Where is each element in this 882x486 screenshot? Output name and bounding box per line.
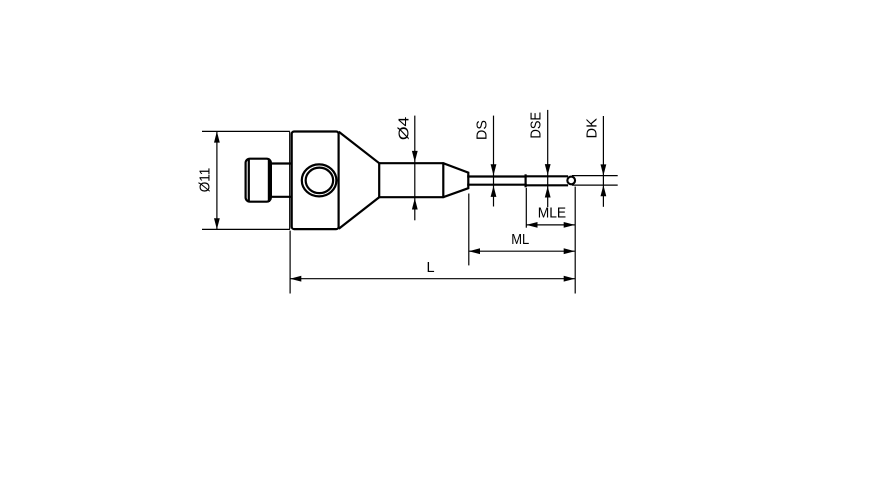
stem DS top edge xyxy=(468,175,525,177)
dimension L left arrow xyxy=(290,276,301,282)
stem DSE top edge xyxy=(526,175,567,177)
cone and taper outline xyxy=(339,132,469,229)
dimension MLE left arrow xyxy=(526,222,537,228)
cylinder/taper junction edge xyxy=(442,162,444,198)
dimension Ø11 top arrow xyxy=(214,131,220,142)
dimension Ø11 top extension line xyxy=(202,130,290,132)
dimension DK line xyxy=(602,116,604,207)
stem junction step xyxy=(524,175,526,186)
dimension ML left arrow xyxy=(469,248,480,254)
dimension MLE right arrow xyxy=(564,222,575,228)
dimension DSE bottom arrow xyxy=(545,186,551,197)
dimension DK bottom arrow xyxy=(601,185,607,196)
dimension Ø11 bottom extension line xyxy=(202,228,290,230)
dimension DK top arrow xyxy=(601,164,607,175)
dimension Ø4 line xyxy=(414,116,416,221)
dimension Ø4 bottom arrow xyxy=(412,198,418,209)
cylinder left edge xyxy=(378,162,380,198)
neck top edge xyxy=(271,162,291,164)
stylus body xyxy=(292,132,339,230)
svg-text:MLE: MLE xyxy=(538,206,567,222)
svg-text:DSE: DSE xyxy=(528,112,544,139)
dimension MLE line xyxy=(526,224,575,226)
body cross-hole inner circle xyxy=(306,168,334,194)
stylus thread cap xyxy=(246,159,271,202)
dimension DS line xyxy=(493,116,495,207)
svg-text:DS: DS xyxy=(475,120,491,140)
ball bottom tangent extension line xyxy=(572,184,618,186)
dimension ML right arrow xyxy=(564,248,575,254)
dimension DSE top arrow xyxy=(545,164,551,175)
dimension Ø4 top arrow xyxy=(412,151,418,162)
body cross-hole outer circle xyxy=(302,164,337,196)
stem DSE bottom edge xyxy=(526,184,567,186)
ball tip DK xyxy=(567,177,575,185)
dimension DSE line xyxy=(547,110,549,207)
right extension line (ball) xyxy=(574,187,576,294)
dimension L left extension line xyxy=(289,231,291,294)
ball top tangent extension line xyxy=(572,175,618,177)
dimension Ø11 bottom arrow xyxy=(214,218,220,229)
cap chamfer line right xyxy=(268,160,270,201)
dimension MLE left extension line xyxy=(525,188,527,228)
svg-text:DK: DK xyxy=(584,118,600,139)
svg-text:ML: ML xyxy=(511,232,529,248)
dimension DS bottom arrow xyxy=(491,186,497,197)
neck bottom edge xyxy=(271,196,291,198)
svg-text:Ø4: Ø4 xyxy=(396,117,412,141)
dimension ML line xyxy=(469,250,575,252)
body left face second line xyxy=(289,132,291,229)
dimension Ø11 line xyxy=(216,131,218,229)
dimension L line xyxy=(290,278,575,280)
svg-text:Ø11: Ø11 xyxy=(197,168,213,193)
svg-text:L: L xyxy=(427,260,435,276)
dimension ML left extension line xyxy=(468,194,470,266)
dimension DS top arrow xyxy=(491,164,497,175)
cap chamfer line left xyxy=(248,160,250,201)
dimension L right arrow xyxy=(564,276,575,282)
stem DS bottom edge xyxy=(468,184,525,186)
